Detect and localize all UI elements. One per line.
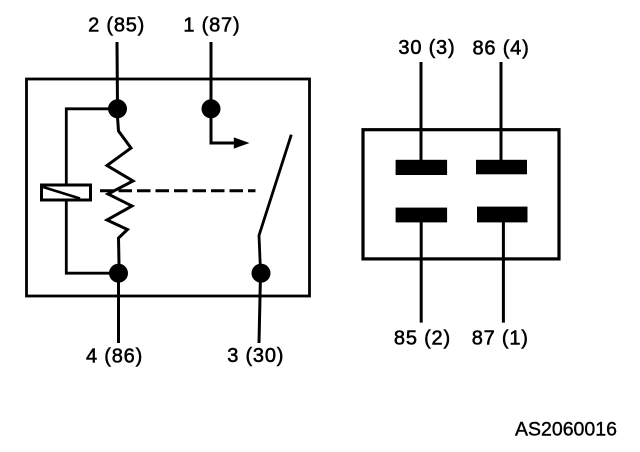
svg-text:AS2060016: AS2060016 (515, 419, 617, 441)
svg-text:2 (85): 2 (85) (88, 14, 145, 36)
svg-text:85 (2): 85 (2) (394, 327, 451, 349)
svg-text:30 (3): 30 (3) (398, 37, 455, 59)
svg-text:86 (4): 86 (4) (473, 37, 530, 59)
svg-text:1 (87): 1 (87) (183, 14, 240, 36)
svg-text:3 (30): 3 (30) (227, 345, 284, 367)
svg-text:4 (86): 4 (86) (86, 345, 143, 367)
svg-text:87 (1): 87 (1) (472, 327, 529, 349)
